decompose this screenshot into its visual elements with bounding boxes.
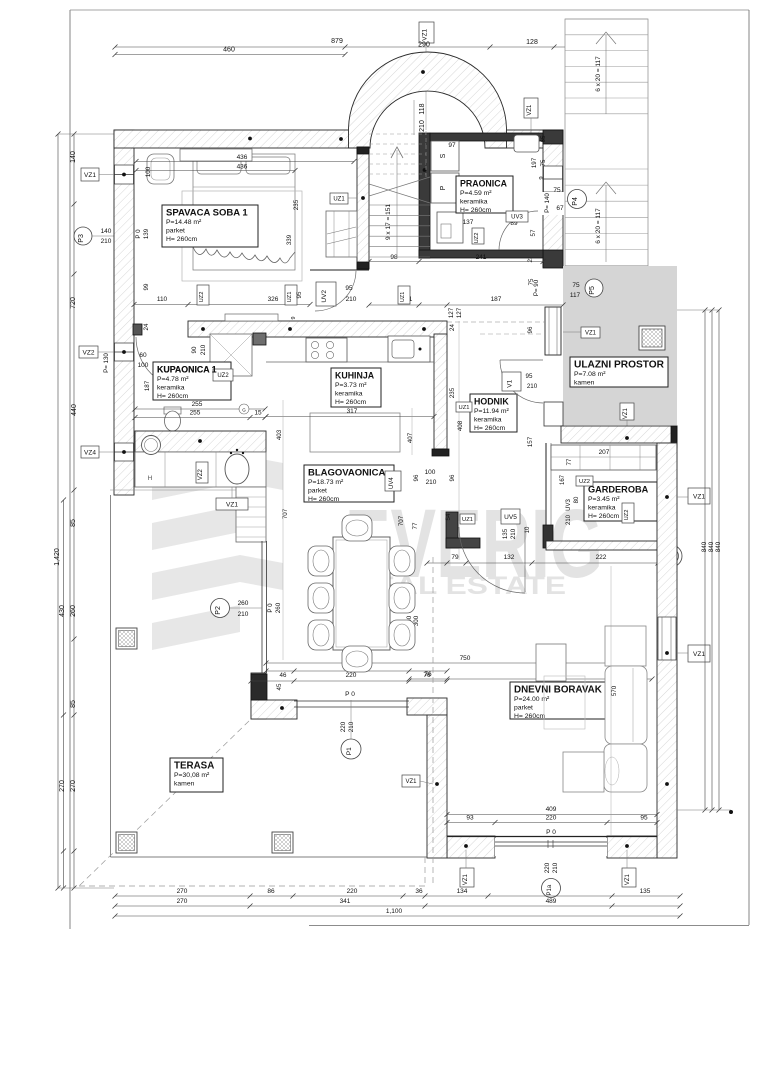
chairs right xyxy=(389,546,415,576)
sofa corner cushion xyxy=(604,744,647,792)
svg-text:95: 95 xyxy=(296,291,303,298)
svg-text:H= 260cm: H= 260cm xyxy=(588,513,620,520)
wall east upper (by exterior stairs) xyxy=(543,143,563,267)
kitchen dims xyxy=(266,416,434,418)
dryer in praonica xyxy=(431,173,459,203)
svg-text:255: 255 xyxy=(190,410,201,417)
svg-text:207: 207 xyxy=(599,449,610,456)
svg-text:210: 210 xyxy=(348,721,355,732)
svg-text:235: 235 xyxy=(293,199,300,210)
svg-text:P4: P4 xyxy=(572,197,579,206)
svg-text:P 0: P 0 xyxy=(135,229,142,239)
window VZ2 west xyxy=(115,343,134,361)
label VZ1 entry xyxy=(581,327,600,338)
svg-text:S: S xyxy=(440,153,447,158)
svg-text:V1: V1 xyxy=(507,379,514,387)
kitchen sink xyxy=(388,336,430,362)
svg-text:260: 260 xyxy=(238,600,249,607)
terrace dashed boundary xyxy=(79,721,249,886)
svg-text:UV3: UV3 xyxy=(511,215,523,221)
bedroom interior dims xyxy=(136,161,354,163)
svg-text:36: 36 xyxy=(415,888,423,895)
svg-text:UZ1: UZ1 xyxy=(333,197,345,203)
room label PRAONICA xyxy=(456,176,513,213)
svg-text:keramika: keramika xyxy=(474,417,502,424)
window east wall xyxy=(658,617,676,660)
svg-text:96: 96 xyxy=(449,474,456,481)
svg-text:135: 135 xyxy=(640,888,651,895)
svg-text:76: 76 xyxy=(423,672,431,679)
room label GARDEROBA xyxy=(584,482,657,521)
svg-text:60: 60 xyxy=(139,352,147,359)
exterior stairs upper flight xyxy=(565,19,648,266)
svg-text:UV3: UV3 xyxy=(566,499,572,511)
svg-text:128: 128 xyxy=(526,39,538,46)
svg-text:840: 840 xyxy=(701,541,708,552)
svg-text:77: 77 xyxy=(412,522,419,529)
stair break lines xyxy=(369,177,430,196)
svg-text:65: 65 xyxy=(540,135,547,142)
svg-text:VZ1: VZ1 xyxy=(693,493,705,500)
bedroom south wall xyxy=(188,321,447,337)
svg-text:P=3.73 m²: P=3.73 m² xyxy=(335,382,367,389)
label VZ1 entry lower xyxy=(620,403,634,420)
svg-text:UZ2: UZ2 xyxy=(624,510,630,521)
svg-text:HODNIK: HODNIK xyxy=(474,397,509,407)
svg-text:P 0: P 0 xyxy=(267,603,274,613)
svg-text:H= 260cm: H= 260cm xyxy=(308,496,340,503)
svg-text:879: 879 xyxy=(331,38,343,45)
garderoba small labels xyxy=(576,476,593,486)
garderoba north wall xyxy=(561,426,677,443)
svg-text:6 x 20 = 117: 6 x 20 = 117 xyxy=(595,208,602,244)
entry west wall piece xyxy=(545,307,561,355)
label VZ1 west xyxy=(81,168,99,181)
garderoba closet xyxy=(551,445,656,470)
svg-text:H= 260cm: H= 260cm xyxy=(474,425,506,432)
svg-text:222: 222 xyxy=(596,554,607,561)
interior stair dashed upper treads xyxy=(369,133,426,135)
svg-text:317: 317 xyxy=(347,408,358,415)
svg-text:G: G xyxy=(242,408,246,413)
svg-text:100: 100 xyxy=(145,166,152,177)
entry wall piece below V1 xyxy=(544,402,563,426)
bottom dim chain 3 xyxy=(115,915,680,917)
svg-text:135: 135 xyxy=(502,528,509,539)
svg-text:P=14.48 m²: P=14.48 m² xyxy=(166,219,202,226)
left dimension chains xyxy=(57,134,59,888)
room label ULAZNI PROSTOR xyxy=(570,357,668,387)
svg-text:220: 220 xyxy=(347,888,358,895)
svg-text:720: 720 xyxy=(70,297,77,309)
labels VZ1 east xyxy=(688,488,710,504)
svg-text:270: 270 xyxy=(70,780,77,792)
hodnik dim chain xyxy=(458,321,460,560)
svg-text:H: H xyxy=(148,475,153,482)
right dim chains 840 xyxy=(704,310,706,810)
svg-text:UZ2: UZ2 xyxy=(199,292,205,303)
svg-text:UV4: UV4 xyxy=(389,477,395,489)
svg-text:UZ2: UZ2 xyxy=(579,479,590,485)
kitchen counter line xyxy=(266,361,434,363)
label UZ2 bathroom xyxy=(213,369,233,381)
room label BLAGOVAONICA xyxy=(304,465,394,502)
garderoba south wall xyxy=(546,541,658,550)
svg-text:187: 187 xyxy=(491,296,502,303)
label V1 + size xyxy=(502,372,521,391)
svg-text:90: 90 xyxy=(191,346,198,353)
svg-text:79: 79 xyxy=(451,554,459,561)
sofa body along east wall xyxy=(605,666,647,744)
svg-text:parket: parket xyxy=(514,705,533,712)
sliding window south xyxy=(495,838,607,856)
living dim lines center xyxy=(266,662,641,664)
svg-text:VZ1: VZ1 xyxy=(585,331,597,337)
oval washbasin xyxy=(225,454,249,484)
terrace pillar 2 xyxy=(116,832,137,853)
svg-text:P1: P1 xyxy=(346,747,353,755)
sliding door P1 dining-terrace xyxy=(294,700,409,702)
svg-text:707: 707 xyxy=(398,515,405,526)
labels UZ2 UZ1 on south wall xyxy=(197,285,209,305)
svg-text:H= 260cm: H= 260cm xyxy=(157,393,189,400)
svg-text:P2: P2 xyxy=(215,606,222,615)
room label DNEVNI BORAVAK xyxy=(510,682,608,719)
window in east upper wall xyxy=(544,166,563,192)
kitchen east wall xyxy=(434,334,447,449)
door arc UV3 praonica xyxy=(499,211,538,250)
svg-text:parket: parket xyxy=(308,488,327,495)
svg-text:UZ1: UZ1 xyxy=(459,405,470,411)
svg-text:210: 210 xyxy=(419,120,426,132)
svg-text:UV2: UV2 xyxy=(321,290,328,303)
praonica west wall xyxy=(419,133,430,258)
svg-text:keramika: keramika xyxy=(157,385,185,392)
svg-text:H= 260cm: H= 260cm xyxy=(166,236,198,243)
room label KUHINJA xyxy=(331,368,381,407)
svg-text:P=4.59 m²: P=4.59 m² xyxy=(460,190,492,197)
svg-text:139: 139 xyxy=(143,228,150,239)
svg-text:137: 137 xyxy=(463,219,474,226)
svg-text:P=11.94 m²: P=11.94 m² xyxy=(474,408,510,415)
svg-text:VZ1: VZ1 xyxy=(623,407,629,419)
svg-text:187: 187 xyxy=(144,380,151,391)
svg-text:255: 255 xyxy=(192,401,203,408)
svg-text:VZ1: VZ1 xyxy=(527,104,533,116)
svg-text:15: 15 xyxy=(254,410,262,417)
svg-text:403: 403 xyxy=(276,429,283,440)
dim line under praonica xyxy=(369,261,543,263)
svg-text:54: 54 xyxy=(445,513,452,520)
svg-text:9: 9 xyxy=(539,176,545,179)
sheet frame xyxy=(69,10,71,929)
svg-text:P 0: P 0 xyxy=(546,829,556,836)
label VZ1 top xyxy=(419,22,434,43)
chair bottom xyxy=(342,646,372,672)
svg-text:489: 489 xyxy=(546,898,557,905)
svg-text:KUPAONICA 1: KUPAONICA 1 xyxy=(157,365,217,375)
washer in praonica xyxy=(431,141,459,171)
svg-text:140: 140 xyxy=(101,228,112,235)
stair walk line + arrow xyxy=(396,150,398,257)
svg-text:132: 132 xyxy=(504,554,515,561)
column circle at garderoba corner xyxy=(660,545,682,567)
svg-text:VZ1: VZ1 xyxy=(226,501,238,508)
svg-text:75: 75 xyxy=(572,282,580,289)
svg-text:408: 408 xyxy=(457,420,464,431)
wall north exterior (right of arch) xyxy=(506,130,563,148)
svg-text:210: 210 xyxy=(238,611,249,618)
svg-text:95: 95 xyxy=(526,373,533,380)
sofa chaise bottom xyxy=(563,752,604,792)
svg-text:96: 96 xyxy=(413,474,420,481)
svg-text:110: 110 xyxy=(157,296,168,303)
svg-text:keramika: keramika xyxy=(588,505,616,512)
bedroom door opening line xyxy=(310,269,369,271)
dark block kitchen side xyxy=(253,333,266,345)
svg-text:210: 210 xyxy=(510,528,517,539)
svg-text:127: 127 xyxy=(456,307,463,318)
stove xyxy=(306,338,347,362)
svg-text:570: 570 xyxy=(611,685,618,696)
svg-text:P 0: P 0 xyxy=(345,691,355,698)
svg-text:407: 407 xyxy=(407,432,414,443)
chair top xyxy=(342,515,372,541)
west wall corner block xyxy=(133,324,142,335)
svg-text:140: 140 xyxy=(70,151,77,163)
svg-text:9: 9 xyxy=(291,316,297,319)
svg-text:UV5: UV5 xyxy=(504,514,517,521)
thin interior dim verticals xyxy=(282,400,284,660)
door mark P4 xyxy=(568,190,587,209)
svg-text:VZ2: VZ2 xyxy=(83,349,95,356)
interior stair solid treads xyxy=(369,204,430,206)
bottom dim chain 2 xyxy=(115,905,680,907)
room label HODNIK xyxy=(470,394,517,432)
svg-text:210: 210 xyxy=(566,514,572,525)
door gap P4 in east wall xyxy=(543,192,564,215)
svg-text:210: 210 xyxy=(552,862,559,873)
svg-text:235: 235 xyxy=(449,387,456,398)
svg-text:H= 260cm: H= 260cm xyxy=(514,713,546,720)
svg-text:67: 67 xyxy=(556,205,564,212)
svg-text:ULAZNI PROSTOR: ULAZNI PROSTOR xyxy=(574,359,664,371)
svg-text:127: 127 xyxy=(448,307,455,318)
svg-text:210: 210 xyxy=(200,344,207,355)
svg-text:210: 210 xyxy=(346,296,357,303)
terrace L wall block xyxy=(251,673,266,719)
svg-text:197: 197 xyxy=(531,157,538,168)
svg-text:VZ1: VZ1 xyxy=(422,28,429,40)
top dimension chain xyxy=(115,46,571,48)
svg-text:339: 339 xyxy=(286,234,293,245)
label VZ1 west living xyxy=(402,775,420,787)
svg-text:85: 85 xyxy=(70,700,77,708)
bed xyxy=(193,154,295,270)
svg-text:VZ1: VZ1 xyxy=(405,779,417,785)
svg-text:750: 750 xyxy=(460,655,471,662)
dining table xyxy=(333,537,390,650)
door mark P2 xyxy=(211,599,230,618)
svg-text:PRAONICA: PRAONICA xyxy=(460,179,508,189)
svg-text:1,100: 1,100 xyxy=(386,908,403,915)
L wall piece hodnik south xyxy=(446,512,458,548)
door mark P5 xyxy=(585,279,603,297)
svg-text:260: 260 xyxy=(70,605,77,617)
wall north exterior (left of arch) xyxy=(114,130,349,148)
svg-text:P=24.00 m²: P=24.00 m² xyxy=(514,696,550,703)
svg-text:341: 341 xyxy=(340,898,351,905)
svg-text:93: 93 xyxy=(466,815,474,822)
svg-text:460: 460 xyxy=(223,47,235,54)
wardrobe by stair wall xyxy=(326,211,357,257)
counter row below bathroom xyxy=(135,452,266,487)
labels VZ1 bottom xyxy=(460,868,474,887)
svg-text:840: 840 xyxy=(715,541,722,552)
svg-text:kamen: kamen xyxy=(574,380,595,387)
svg-text:VZ1: VZ1 xyxy=(463,873,469,885)
terrace pillar 3 xyxy=(272,832,293,853)
svg-text:167: 167 xyxy=(560,474,566,485)
dim line 570 vertical xyxy=(610,566,612,836)
stair arrow upper xyxy=(605,35,607,114)
terrace window to dining xyxy=(261,541,263,673)
svg-text:46: 46 xyxy=(280,672,287,679)
svg-text:436: 436 xyxy=(237,164,248,171)
entry door V1 arc xyxy=(500,360,543,403)
svg-text:210: 210 xyxy=(101,238,112,245)
wall band below bathroom xyxy=(135,431,266,452)
svg-text:80: 80 xyxy=(574,496,580,503)
door UV5 hodnik to living xyxy=(501,509,520,524)
svg-text:VZ1: VZ1 xyxy=(84,172,96,179)
terrace edge lines xyxy=(110,495,112,857)
svg-text:P=7.08 m²: P=7.08 m² xyxy=(574,371,606,378)
garderoba west wall xyxy=(545,443,547,545)
wall west exterior xyxy=(114,130,134,495)
praonica north wall xyxy=(430,133,543,141)
svg-text:270: 270 xyxy=(177,898,188,905)
svg-text:TERASA: TERASA xyxy=(174,761,214,772)
svg-text:157: 157 xyxy=(527,436,534,447)
svg-text:P=3.45 m²: P=3.45 m² xyxy=(588,496,620,503)
hodnik south dim line xyxy=(427,562,658,564)
praonica south wall xyxy=(419,250,543,258)
coffee table xyxy=(536,644,566,681)
door arc UV2 bedroom xyxy=(315,271,356,311)
svg-text:270: 270 xyxy=(59,780,66,792)
svg-text:H= 260cm: H= 260cm xyxy=(335,399,367,406)
svg-text:P= 130: P= 130 xyxy=(103,353,110,373)
svg-text:KUHINJA: KUHINJA xyxy=(335,371,375,381)
svg-text:BLAGOVAONICA: BLAGOVAONICA xyxy=(308,468,386,479)
svg-text:220: 220 xyxy=(546,815,557,822)
svg-text:220: 220 xyxy=(544,862,551,873)
corridor dims below praonica xyxy=(369,304,563,306)
door mark P1a xyxy=(542,879,561,898)
watermark logo mark xyxy=(152,455,283,500)
label VZ2 west xyxy=(79,346,98,358)
svg-text:134: 134 xyxy=(457,888,468,895)
svg-text:95: 95 xyxy=(345,285,353,292)
svg-text:keramika: keramika xyxy=(460,199,488,206)
svg-text:UZ1: UZ1 xyxy=(287,292,293,303)
svg-text:10: 10 xyxy=(525,526,531,533)
svg-text:210: 210 xyxy=(527,383,538,390)
kitchen island xyxy=(310,413,400,452)
svg-text:UZ2: UZ2 xyxy=(217,373,229,379)
label UZ1 bedroom wall xyxy=(330,193,348,204)
svg-text:9 x 17 = 151: 9 x 17 = 151 xyxy=(385,204,392,240)
svg-text:VZ2: VZ2 xyxy=(198,468,204,480)
stair arrow lower xyxy=(605,185,607,262)
svg-text:241: 241 xyxy=(476,254,487,261)
svg-text:100: 100 xyxy=(425,469,436,476)
svg-text:430: 430 xyxy=(59,605,66,617)
svg-text:kamen: kamen xyxy=(174,781,195,788)
door mark P1 xyxy=(341,739,361,759)
exterior stairs lower flight xyxy=(565,168,648,170)
svg-text:117: 117 xyxy=(570,292,581,299)
bottom dim chain 1 xyxy=(115,895,680,897)
terrace pillar 1 xyxy=(116,628,137,649)
dining bottom dims xyxy=(266,670,447,672)
west living wall xyxy=(407,698,447,715)
svg-text:SPAVACA SOBA 1: SPAVACA SOBA 1 xyxy=(166,208,248,219)
svg-text:P= 140: P= 140 xyxy=(544,193,551,213)
svg-text:326: 326 xyxy=(268,296,279,303)
svg-text:P: P xyxy=(440,185,447,190)
svg-text:UZ1: UZ1 xyxy=(400,292,406,302)
label UV2 + size xyxy=(316,282,336,306)
entry hatch shaft xyxy=(639,326,665,350)
svg-text:260: 260 xyxy=(275,602,282,613)
svg-text:85: 85 xyxy=(70,519,77,527)
ulazni prostor gray floor xyxy=(563,266,677,425)
dashed ceiling line hodnik xyxy=(447,321,545,323)
svg-text:57: 57 xyxy=(530,229,537,236)
svg-text:P3: P3 xyxy=(78,234,85,243)
svg-text:436: 436 xyxy=(237,154,248,161)
bedroom east wall xyxy=(357,147,369,269)
label VZ1 north-right xyxy=(524,98,538,118)
svg-text:24: 24 xyxy=(449,324,456,331)
svg-text:1,420: 1,420 xyxy=(54,548,61,566)
svg-text:24: 24 xyxy=(143,323,150,330)
sink in praonica xyxy=(514,135,539,152)
window VZ4 west xyxy=(115,443,134,461)
svg-text:220: 220 xyxy=(346,672,357,679)
sofa top cushion xyxy=(605,626,646,666)
svg-text:DNEVNI BORAVAK: DNEVNI BORAVAK xyxy=(514,685,602,696)
svg-text:290: 290 xyxy=(418,42,430,49)
svg-text:95: 95 xyxy=(640,815,648,822)
chairs left xyxy=(308,546,334,576)
label VZ1 counter xyxy=(216,498,248,510)
living bottom dims xyxy=(447,814,657,816)
svg-text:keramika: keramika xyxy=(335,391,363,398)
rug living room xyxy=(544,676,585,729)
svg-text:45: 45 xyxy=(276,683,283,690)
svg-text:210: 210 xyxy=(426,479,437,486)
svg-text:99: 99 xyxy=(143,283,150,290)
svg-text:VZ1: VZ1 xyxy=(625,873,631,885)
carpet under bed xyxy=(182,191,302,281)
washer basin circle xyxy=(142,436,161,455)
room label SPAVACA SOBA 1 xyxy=(162,205,258,247)
svg-text:GARDEROBA: GARDEROBA xyxy=(588,485,649,495)
toilet xyxy=(164,407,181,414)
